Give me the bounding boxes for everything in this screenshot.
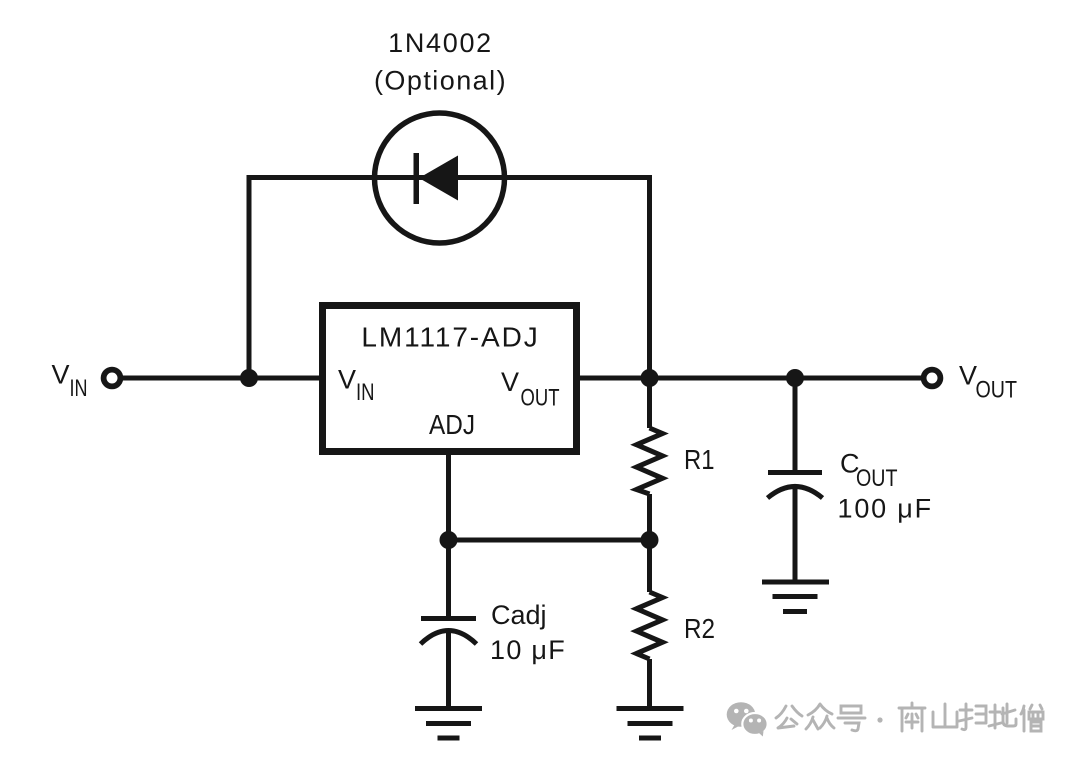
junction: Vout / R1 node	[641, 369, 659, 387]
svg-text:R1: R1	[684, 444, 715, 475]
char seng	[1021, 705, 1043, 731]
capacitor Cadj top plate	[421, 616, 476, 621]
watermark text 公众号·南山扫地僧 (drawn strokes)	[776, 703, 1043, 731]
junction: ADJ-Cadj node	[440, 531, 458, 549]
capacitor Cout top plate	[768, 470, 822, 475]
svg-text:V: V	[52, 360, 70, 390]
svg-text:10 μF: 10 μF	[490, 635, 566, 665]
char gong	[776, 706, 802, 728]
svg-text:OUT: OUT	[521, 385, 560, 412]
svg-text:OUT: OUT	[856, 465, 898, 492]
wire: Cadj bottom lead	[446, 632, 451, 708]
svg-text:100 μF: 100 μF	[838, 494, 933, 524]
svg-text:LM1117-ADJ: LM1117-ADJ	[361, 322, 539, 353]
svg-text:ADJ: ADJ	[429, 409, 475, 440]
svg-text:IN: IN	[356, 379, 375, 406]
junction: ADJ-R1R2 node	[641, 531, 659, 549]
svg-text:V: V	[501, 367, 519, 397]
ground: R2	[617, 709, 684, 739]
char shan	[933, 704, 957, 727]
op-amp U1 LM1117-ADJ box	[323, 306, 577, 452]
wire: ADJ node horizontal	[449, 538, 650, 543]
diode D1 triangle	[419, 156, 458, 201]
wire: Cadj top lead	[446, 540, 451, 618]
char zhong	[806, 704, 834, 729]
capacitor Cadj curved plate	[421, 631, 477, 645]
wire: R2 bottom lead	[647, 659, 652, 708]
wire: R2 top lead	[647, 540, 652, 592]
diode D1 circle	[375, 113, 505, 243]
char hao	[838, 706, 865, 731]
wire: regulator Vout pin to Vout terminal	[580, 376, 922, 381]
svg-text:(Optional): (Optional)	[374, 66, 507, 96]
svg-text:Cadj: Cadj	[491, 600, 547, 630]
svg-text:IN: IN	[70, 375, 88, 402]
junction: Vin node	[240, 369, 258, 387]
svg-text:R2: R2	[684, 613, 715, 644]
svg-text:V: V	[959, 361, 977, 391]
junction: Cout node	[786, 369, 804, 387]
char nan	[899, 703, 925, 731]
svg-text:1N4002: 1N4002	[388, 28, 493, 58]
wire: Cout top lead	[793, 378, 798, 472]
ground: Cadj	[415, 709, 482, 739]
char di	[989, 704, 1016, 728]
wire: diode loop (left vertical, top horizontal, right vertical)	[249, 178, 650, 379]
diode D1 cathode bar	[414, 153, 420, 204]
wire: ADJ pin vertical	[446, 455, 451, 540]
wire: R1 top lead	[647, 378, 652, 428]
svg-text:OUT: OUT	[976, 377, 1018, 404]
capacitor Cout curved plate	[768, 487, 823, 499]
wire: R1 bottom lead	[647, 494, 652, 540]
resistor R1 zigzag	[637, 428, 663, 494]
terminal: Vin	[104, 370, 121, 387]
ground: Cout	[762, 582, 829, 612]
terminal: Vout	[924, 370, 941, 387]
middle dot	[877, 717, 882, 722]
wire: Cout bottom lead	[793, 487, 798, 581]
char sao	[959, 704, 986, 730]
wire: Vin terminal to regulator Vin pin	[120, 376, 319, 381]
resistor R2 zigzag	[637, 592, 663, 659]
watermark wechat icon	[727, 702, 768, 736]
svg-text:V: V	[338, 365, 356, 395]
